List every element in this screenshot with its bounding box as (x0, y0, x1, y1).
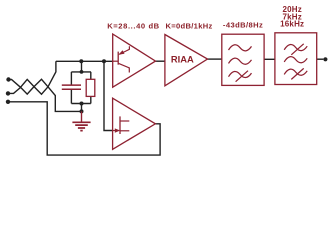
F1 wave 2 (229, 58, 252, 64)
transistor symbol inside A1: base stub (113, 60, 119, 62)
op-amp A2 (shield buffer) triangle (113, 98, 156, 149)
wire: capacitor bottom lead (70, 89, 72, 103)
junction at RC bottom bus (80, 102, 84, 106)
ground symbol bars (72, 122, 90, 130)
ground stem red (81, 111, 83, 121)
capacitor C1 plates (62, 85, 81, 89)
wire: shield from input terminal 3 looping under to buffer output (8, 102, 160, 155)
transistor symbol inside A1: collector (119, 63, 130, 72)
filter F1 box (-43dB/8Hz subsonic) (222, 34, 264, 85)
junction on rail at buffer tap (102, 59, 106, 63)
wire: A1 output to RIAA input (156, 60, 165, 62)
transistor symbol inside A1: base bar (117, 52, 119, 65)
F2 wave 1 with cancel slash (284, 45, 307, 51)
wire: twist top exit rising to input rail (48, 61, 56, 87)
svg-text:16kHz: 16kHz (280, 20, 304, 29)
wire: twisted pair upper conductor from input terminal (9, 80, 21, 88)
wire: RC bracket top bus (71, 71, 91, 73)
FET symbol inside A2: source lead (120, 130, 129, 132)
wire: top input rail into amplifier A1 (56, 60, 113, 62)
F2 wave 3 with cancel slash (284, 69, 307, 75)
wire: twist bottom exit down then right to ground node (48, 87, 82, 112)
wire: tap from rail down to buffer A2 input (104, 61, 113, 130)
svg-text:K=28...40 dB: K=28...40 dB (107, 22, 160, 31)
junction on rail at RC tap (79, 59, 83, 63)
wire: RC bottom bus (71, 103, 90, 105)
wire: capacitor top lead (70, 72, 72, 85)
wire: tap from rail down to RC bracket (81, 61, 83, 72)
FET symbol inside A2: gate line with arrow (113, 130, 116, 132)
twisted pair twist diamond 2 (34, 79, 48, 94)
svg-text:K=0dB/1kHz: K=0dB/1kHz (166, 22, 213, 31)
input terminal shield (6, 100, 10, 104)
junction at ground node (80, 109, 84, 113)
resistor R1 body (86, 79, 95, 96)
twisted pair twist diamond 1 (21, 79, 35, 94)
input terminal top (6, 77, 10, 81)
wire: twisted pair lower conductor from input terminal (8, 88, 21, 94)
FET symbol inside A2: drain lead (120, 120, 129, 122)
F1 wave 1 (229, 45, 252, 51)
F1 wave 3 with cancel slash (229, 71, 252, 77)
wire: filter 1 output to filter 2 (264, 58, 275, 60)
wire: resistor top lead (90, 72, 92, 79)
input terminal middle (6, 91, 10, 95)
op-amp A1 (input amplifier) triangle (113, 34, 156, 87)
output terminal (323, 57, 327, 61)
svg-text:RIAA: RIAA (171, 53, 194, 64)
filter F2 box (band filter) (275, 33, 317, 85)
wire: ground stem upper black (81, 104, 83, 112)
transistor symbol inside A1: emitter with arrow to base (119, 46, 129, 54)
wire: RIAA output to filter 1 (208, 58, 222, 60)
junction at RC bracket (80, 70, 84, 74)
FET symbol inside A2: channel bar (119, 116, 121, 134)
wire: filter 2 output to output terminal (317, 58, 324, 60)
F2 wave 2 (284, 57, 307, 63)
RIAA equalizer amp U1 triangle (165, 35, 208, 86)
wire: resistor bottom lead (90, 96, 92, 103)
svg-text:-43dB/8Hz: -43dB/8Hz (223, 21, 263, 30)
